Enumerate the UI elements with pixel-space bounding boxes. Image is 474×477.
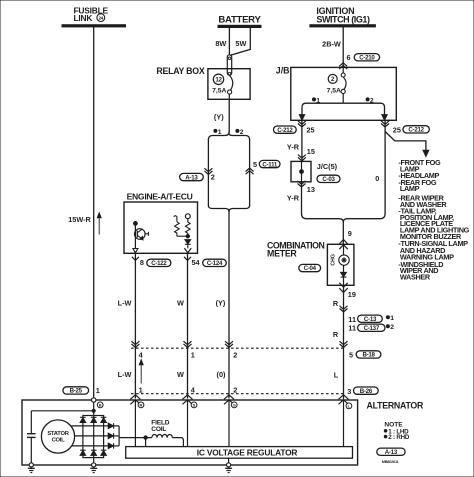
- svg-text:(0): (0): [217, 370, 226, 379]
- svg-text:ALTERNATOR: ALTERNATOR: [367, 401, 425, 411]
- svg-text:ENGINE-A/T-ECU: ENGINE-A/T-ECU: [127, 191, 193, 201]
- svg-text:1: 1: [218, 129, 222, 136]
- svg-text:R: R: [333, 299, 339, 308]
- svg-text:2: 2: [240, 129, 244, 136]
- svg-text:IC VOLTAGE REGULATOR: IC VOLTAGE REGULATOR: [197, 447, 298, 457]
- svg-text:1: 1: [96, 386, 100, 395]
- svg-text:C-03: C-03: [322, 176, 335, 183]
- svg-text:RELAY BOX: RELAY BOX: [156, 66, 204, 76]
- svg-text:2: 2: [233, 350, 237, 359]
- svg-text:LAMP: LAMP: [400, 184, 420, 193]
- svg-text:2 : RHD: 2 : RHD: [388, 434, 410, 441]
- svg-text:2: 2: [370, 97, 374, 104]
- svg-text:COIL: COIL: [52, 438, 66, 444]
- svg-text:L-W: L-W: [118, 299, 132, 308]
- svg-text:G: G: [233, 403, 236, 408]
- svg-text:C-111: C-111: [262, 161, 278, 168]
- svg-text:C-04: C-04: [304, 265, 317, 272]
- svg-text:S: S: [193, 403, 196, 408]
- svg-text:C-124: C-124: [207, 260, 223, 267]
- svg-text:5W: 5W: [235, 39, 246, 48]
- svg-text:C-210: C-210: [359, 54, 375, 61]
- svg-text:METER: METER: [267, 248, 297, 258]
- svg-text:C-212: C-212: [408, 126, 424, 133]
- svg-text:J/C(5): J/C(5): [317, 162, 338, 171]
- svg-text:1: 1: [390, 315, 394, 322]
- svg-text:7,5A: 7,5A: [212, 88, 226, 95]
- svg-text:8: 8: [140, 258, 144, 267]
- svg-text:(Y): (Y): [214, 112, 224, 121]
- svg-text:5: 5: [253, 160, 257, 169]
- svg-text:24: 24: [99, 16, 104, 21]
- svg-text:0: 0: [375, 174, 379, 183]
- svg-text:L: L: [334, 371, 339, 380]
- svg-text:11: 11: [348, 324, 356, 333]
- svg-text:MB802611: MB802611: [382, 460, 399, 464]
- svg-text:13: 13: [307, 185, 315, 194]
- svg-text:7,5A: 7,5A: [327, 88, 341, 95]
- svg-text:R: R: [333, 330, 339, 339]
- svg-text:25: 25: [393, 126, 401, 135]
- svg-text:COIL: COIL: [151, 426, 166, 433]
- svg-text:B-18: B-18: [362, 352, 375, 359]
- svg-text:W: W: [177, 370, 184, 379]
- svg-text:2: 2: [390, 324, 394, 331]
- svg-text:A-13: A-13: [185, 174, 198, 181]
- svg-text:9: 9: [348, 229, 352, 238]
- svg-text:LINK: LINK: [74, 13, 93, 23]
- svg-text:A-13: A-13: [385, 449, 398, 456]
- svg-text:25: 25: [307, 126, 315, 135]
- svg-text:6: 6: [346, 53, 350, 62]
- svg-text:C-212: C-212: [277, 127, 293, 134]
- svg-text:L-W: L-W: [118, 370, 132, 379]
- svg-text:BATTERY: BATTERY: [218, 15, 261, 26]
- svg-text:2: 2: [331, 76, 335, 83]
- svg-text:54: 54: [192, 258, 201, 267]
- svg-text:WASHER: WASHER: [400, 272, 431, 281]
- svg-text:B-25: B-25: [70, 388, 83, 395]
- svg-text:1: 1: [316, 97, 320, 104]
- svg-text:8W: 8W: [215, 39, 226, 48]
- svg-text:J/B: J/B: [276, 65, 290, 75]
- svg-text:STATOR: STATOR: [47, 431, 69, 437]
- svg-text:C-137: C-137: [364, 325, 380, 332]
- svg-text:C-122: C-122: [151, 260, 167, 267]
- svg-text:12: 12: [215, 77, 222, 84]
- svg-text:15W-R: 15W-R: [68, 215, 91, 224]
- svg-text:B-26: B-26: [360, 388, 373, 395]
- svg-text:W: W: [177, 299, 184, 308]
- svg-text:2: 2: [211, 172, 215, 181]
- svg-text:R: R: [140, 403, 143, 408]
- svg-text:B: B: [99, 403, 102, 408]
- svg-text:SWITCH (IG1): SWITCH (IG1): [316, 14, 370, 24]
- svg-text:(Y): (Y): [216, 299, 226, 308]
- svg-text:3: 3: [347, 387, 351, 396]
- svg-text:C-13: C-13: [364, 316, 377, 323]
- svg-text:Y-R: Y-R: [287, 142, 300, 151]
- svg-text:11: 11: [348, 315, 356, 324]
- svg-text:1: 1: [191, 350, 195, 359]
- svg-text:2B-W: 2B-W: [322, 40, 341, 49]
- svg-text:15: 15: [307, 147, 315, 156]
- svg-text:Y-R: Y-R: [287, 193, 300, 202]
- svg-text:CHG: CHG: [330, 254, 336, 266]
- svg-text:5: 5: [349, 350, 353, 359]
- svg-text:19: 19: [348, 290, 356, 299]
